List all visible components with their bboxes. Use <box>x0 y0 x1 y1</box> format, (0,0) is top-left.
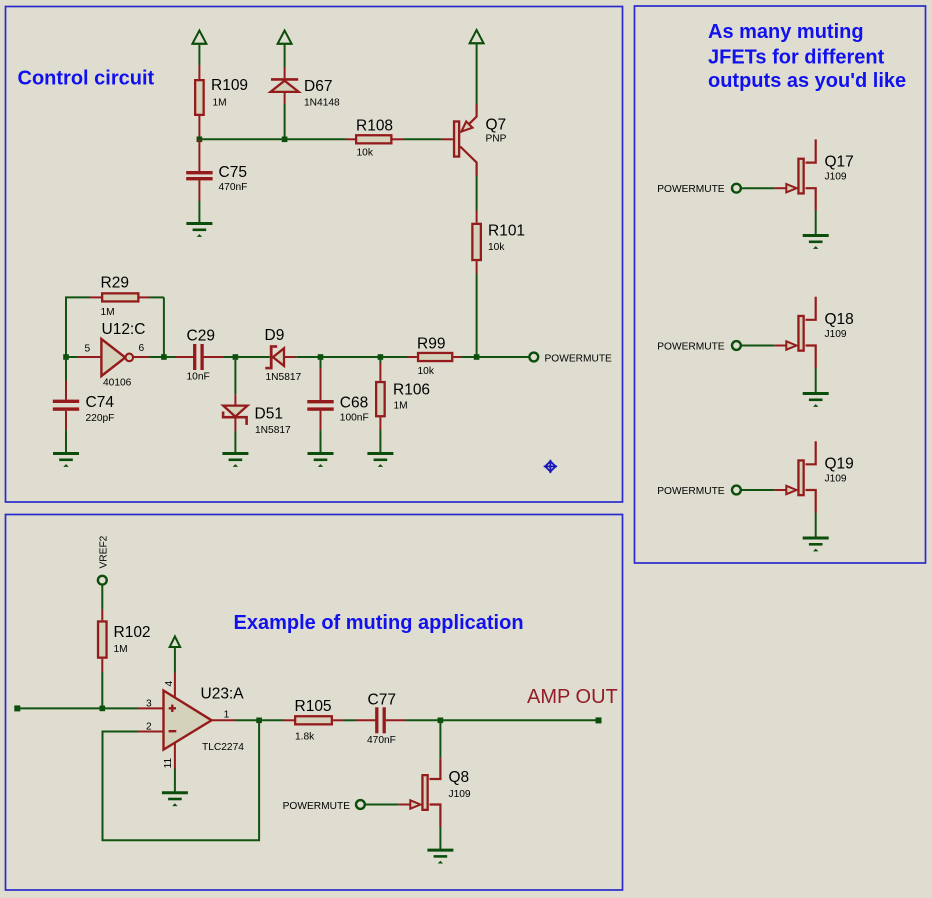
resistor R108 <box>356 135 391 143</box>
ground below Q19 <box>803 537 829 540</box>
power symbol above op-amp pin4 <box>170 636 181 647</box>
resistor R102 <box>98 621 107 657</box>
svg-text:1M: 1M <box>394 400 408 411</box>
wire node to D9 <box>235 356 269 358</box>
ground below D51 <box>222 452 248 455</box>
svg-text:5: 5 <box>85 344 91 355</box>
wire R29 right lead <box>140 296 150 298</box>
transistor Q17 drain wire <box>806 139 816 162</box>
resistor R99 <box>418 353 452 361</box>
svg-text:VREF2: VREF2 <box>98 535 109 568</box>
diode D9 1N5817 <box>270 345 273 369</box>
svg-text:C29: C29 <box>187 328 215 345</box>
capacitor C77 <box>375 707 378 733</box>
svg-text:J109: J109 <box>825 329 847 340</box>
svg-text:10k: 10k <box>357 147 374 158</box>
wire C29 left lead <box>175 356 194 358</box>
wire C75 to ground <box>198 201 200 223</box>
svg-text:outputs as you'd like: outputs as you'd like <box>708 70 906 92</box>
svg-text:TLC2274: TLC2274 <box>202 742 244 753</box>
wire node to U12 input <box>66 356 78 358</box>
wire C68 bottom lead <box>320 411 322 430</box>
wire Q18 gate lead <box>774 345 786 347</box>
wire Q17 gate lead <box>774 187 786 189</box>
svg-text:R108: R108 <box>356 118 393 135</box>
transistor Q18 drain wire <box>806 297 816 320</box>
wire input to node <box>17 707 102 709</box>
wire node to C29 <box>164 356 175 358</box>
wire R109 top lead <box>198 65 200 79</box>
wire node to D51 <box>234 357 236 394</box>
wire op-amp pin11 lead <box>174 743 176 769</box>
wire C29 right lead <box>204 356 224 358</box>
transistor Q17 body bar <box>798 159 803 194</box>
wire R101 to POWERMUTE node <box>476 274 478 358</box>
wire D9 anode lead <box>284 356 296 358</box>
wire R106 bottom lead <box>379 417 381 430</box>
wire R102 to input node <box>101 672 103 708</box>
terminal POWERMUTE for Q18 <box>732 341 741 350</box>
svg-text:1M: 1M <box>101 307 115 318</box>
svg-text:Control circuit: Control circuit <box>18 68 155 90</box>
wire node D67 to R108 <box>285 138 346 140</box>
wire power to pin4 <box>174 647 176 673</box>
svg-text:AMP OUT: AMP OUT <box>527 686 618 708</box>
wire R99 to node R101 <box>462 356 477 358</box>
wire U12 pin6 lead <box>133 356 150 358</box>
terminal POWERMUTE for Q8 <box>356 800 365 809</box>
wire R99 right lead <box>453 356 462 358</box>
transistor Q8 body bar <box>422 775 427 810</box>
svg-text:J109: J109 <box>449 789 471 800</box>
wire C77 to node Q8 <box>406 719 440 721</box>
transistor Q19 source wire <box>806 490 816 513</box>
wire D9 to node C68 <box>296 356 320 358</box>
wire node to POWERMUTE terminal <box>477 356 530 358</box>
transistor Q8 source wire <box>430 805 441 828</box>
wire Q7 base lead <box>441 138 453 140</box>
panel border: Control circuit box <box>6 7 623 503</box>
wire node to R105 <box>259 719 284 721</box>
wire node to op-amp pin3 <box>102 707 138 709</box>
transistor Q18 gate arrow <box>786 341 796 349</box>
wire op-amp pin3 lead <box>138 707 164 709</box>
svg-text:R101: R101 <box>488 223 525 240</box>
wire D51 anode lead <box>234 394 236 406</box>
wire R105 to C77 <box>344 719 356 721</box>
wire R106 top lead <box>379 363 381 381</box>
resistor R106 <box>376 382 385 416</box>
wire Q18 source to ground <box>815 368 817 393</box>
ground below C68 <box>308 452 334 455</box>
node junction D67/wire <box>282 137 288 143</box>
terminal VREF2 <box>98 576 107 585</box>
wire R101 top lead <box>476 211 478 223</box>
svg-text:R106: R106 <box>393 382 430 399</box>
svg-text:U12:C: U12:C <box>102 321 146 338</box>
svg-text:10k: 10k <box>488 242 505 253</box>
svg-text:40106: 40106 <box>103 378 132 389</box>
node junction D9/C68 <box>318 354 324 360</box>
svg-text:R102: R102 <box>114 624 151 641</box>
svg-text:470nF: 470nF <box>367 735 396 746</box>
node junction C77/Q8 <box>438 718 444 724</box>
op-amp U23:A plus sign <box>169 707 176 709</box>
svg-text:4: 4 <box>164 681 175 687</box>
svg-text:100nF: 100nF <box>340 412 369 423</box>
capacitor C74 <box>53 400 79 403</box>
wire pin11 to ground <box>174 769 176 793</box>
wire D67 cathode lead <box>284 67 286 78</box>
wire U12 pin5 lead <box>78 356 102 358</box>
svg-text:Q8: Q8 <box>449 769 470 786</box>
terminal POWERMUTE for Q17 <box>732 184 741 193</box>
op-amp U23:A minus sign <box>169 730 177 732</box>
wire op-amp pin4 lead <box>174 673 176 699</box>
wire node to AMP OUT end <box>440 719 596 721</box>
wire power to Q7 emitter <box>476 43 478 104</box>
wire C77 left lead <box>355 719 375 721</box>
wire D67 anode lead <box>284 92 286 104</box>
node junction R109/C75 <box>197 137 203 143</box>
terminal POWERMUTE for Q19 <box>732 486 741 495</box>
wire node to R106 <box>379 357 381 363</box>
svg-text:R105: R105 <box>295 698 332 715</box>
wire R105 right lead <box>333 719 344 721</box>
wire C68 top lead <box>320 368 322 400</box>
node junction R99/R106 <box>378 354 384 360</box>
resistor R101 <box>472 224 481 260</box>
node junction input U12:C <box>63 354 69 360</box>
wire C75 bottom lead <box>198 180 200 201</box>
wire node to C68 <box>320 357 322 368</box>
wire POWERMUTE to Q17 gate <box>741 187 774 189</box>
ground below R106 <box>367 452 393 455</box>
svg-text:1M: 1M <box>114 644 128 655</box>
diode D51 1N5817 <box>223 406 247 417</box>
svg-text:C68: C68 <box>340 395 368 412</box>
transistor Q19 drain wire <box>806 441 816 464</box>
svg-text:PNP: PNP <box>486 134 507 145</box>
svg-text:11: 11 <box>163 757 174 768</box>
wire feedback loop <box>103 720 260 840</box>
svg-text:U23:A: U23:A <box>201 686 245 703</box>
wire R102 top lead <box>101 610 103 621</box>
diode D67 1N4148 <box>271 78 298 81</box>
svg-text:C77: C77 <box>368 691 396 708</box>
wire POWERMUTE to Q8 gate <box>365 804 398 806</box>
wire R99 left lead <box>407 356 417 358</box>
wire R102 bottom lead <box>101 659 103 672</box>
origin marker <box>545 461 555 471</box>
wire op-amp output lead <box>212 719 235 721</box>
svg-text:10nF: 10nF <box>187 371 210 382</box>
ground below op-amp <box>162 791 188 794</box>
transistor Q8 gate arrow <box>410 800 420 808</box>
wire VREF2 to R102 <box>101 585 103 610</box>
ground below Q18 <box>803 392 829 395</box>
wire R29 right horizontal <box>150 296 164 298</box>
capacitor C75 <box>186 171 212 174</box>
wire C74 top lead <box>65 381 67 400</box>
svg-text:JFETs for different: JFETs for different <box>708 46 885 68</box>
wire C77 right lead <box>386 719 406 721</box>
panel border: muting JFETs box <box>635 6 926 563</box>
svg-text:R99: R99 <box>417 336 445 353</box>
power symbol above Q7 <box>470 30 484 43</box>
inverter U12:C (40106 Schmitt) <box>101 339 125 376</box>
transistor Q8 drain wire <box>430 758 441 779</box>
ground below Q17 <box>803 234 829 237</box>
wire node to C74 <box>65 357 67 381</box>
wire R109 bottom lead <box>198 116 200 139</box>
wire C74 bottom lead <box>65 411 67 430</box>
transistor Q18 body bar <box>798 316 803 351</box>
svg-text:D9: D9 <box>265 327 285 344</box>
svg-text:Q17: Q17 <box>825 154 854 171</box>
wire C29 to node <box>224 356 236 358</box>
node junction C29/D9/D51 <box>233 354 239 360</box>
svg-text:C75: C75 <box>219 164 247 181</box>
transistor Q7 collector lead <box>460 147 476 177</box>
wire C74 to ground <box>65 430 67 452</box>
op-amp U23:A (TLC2274) <box>164 691 212 750</box>
wire Q7 collector to R101 <box>476 176 478 211</box>
wire R108 right lead <box>393 138 404 140</box>
svg-text:2: 2 <box>146 722 152 733</box>
wire R29 left lead <box>90 296 102 298</box>
svg-text:POWERMUTE: POWERMUTE <box>657 184 725 195</box>
svg-text:D67: D67 <box>304 78 332 95</box>
svg-text:As many muting: As many muting <box>708 21 864 43</box>
svg-text:R29: R29 <box>101 274 129 291</box>
node junction R101/POWERMUTE <box>474 354 480 360</box>
wire R29 right vertical <box>163 297 165 357</box>
wire node R109 to node D67 <box>199 138 284 140</box>
svg-text:1M: 1M <box>213 98 227 109</box>
svg-text:1N5817: 1N5817 <box>255 425 291 436</box>
resistor R109 <box>195 80 204 115</box>
wire C68 to ground <box>320 430 322 452</box>
wire R105 left lead <box>284 719 294 721</box>
transistor Q17 source wire <box>806 188 816 211</box>
transistor Q7 emitter arrow (PNP, into base) <box>461 121 472 131</box>
wire output to node <box>235 719 259 721</box>
wire power to D67 <box>284 44 286 67</box>
wire R108 left lead <box>346 138 356 140</box>
terminal POWERMUTE (control) <box>529 353 538 362</box>
wire C68 node to R106 node <box>321 356 381 358</box>
svg-text:220pF: 220pF <box>86 413 115 424</box>
wire R106 to ground <box>379 430 381 453</box>
node junction input/R102 <box>100 706 106 712</box>
transistor Q17 gate arrow <box>786 184 796 192</box>
wire U12 output to node <box>150 356 164 358</box>
svg-text:Q18: Q18 <box>825 311 854 328</box>
power symbol above D67 <box>278 31 292 44</box>
wire Q8 source to ground <box>439 827 441 850</box>
transistor Q7 emitter lead <box>463 104 477 131</box>
wire POWERMUTE to Q18 gate <box>741 345 774 347</box>
svg-text:POWERMUTE: POWERMUTE <box>657 342 725 353</box>
svg-text:J109: J109 <box>825 172 847 183</box>
wire Q17 source to ground <box>815 211 817 235</box>
wire D67 to node <box>284 104 286 139</box>
wire Q19 gate lead <box>774 489 786 491</box>
transistor Q19 gate arrow <box>786 486 796 494</box>
node junction U12 output/R29 <box>161 354 167 360</box>
wire R29 left vertical <box>65 297 67 357</box>
wire POWERMUTE to Q19 gate <box>741 489 774 491</box>
svg-text:R109: R109 <box>211 77 248 94</box>
wire power to R109 <box>198 44 200 65</box>
svg-text:Q19: Q19 <box>825 455 854 472</box>
svg-text:1N4148: 1N4148 <box>304 98 340 109</box>
wire D51 to ground <box>234 431 236 453</box>
svg-text:J109: J109 <box>825 473 847 484</box>
svg-text:1: 1 <box>224 710 230 721</box>
wire D51 cathode lead <box>234 419 236 432</box>
resistor R29 <box>102 293 138 301</box>
svg-text:Q7: Q7 <box>486 117 507 134</box>
wire R29 left horizontal <box>65 296 90 298</box>
svg-text:POWERMUTE: POWERMUTE <box>657 486 725 497</box>
resistor R105 <box>295 716 332 724</box>
ground below Q8 <box>427 849 453 852</box>
panel border: example application box <box>6 515 623 891</box>
svg-text:1N5817: 1N5817 <box>266 372 302 383</box>
capacitor C29 <box>193 344 196 370</box>
transistor Q19 body bar <box>798 460 803 495</box>
transistor Q18 source wire <box>806 346 816 369</box>
svg-text:POWERMUTE: POWERMUTE <box>283 801 351 812</box>
svg-text:Example of muting application: Example of muting application <box>234 612 524 634</box>
wire Q8 gate lead <box>398 804 410 806</box>
wire node to C75 <box>198 139 200 171</box>
wire R108 to Q7 base <box>403 138 441 140</box>
svg-text:1.8k: 1.8k <box>295 732 315 743</box>
ground below C74 <box>53 452 79 455</box>
wire AMP OUT end marker <box>596 717 602 723</box>
svg-text:6: 6 <box>139 343 145 354</box>
svg-text:470nF: 470nF <box>219 182 248 193</box>
wire node to Q8 drain <box>439 720 441 758</box>
node junction output/feedback <box>256 718 262 724</box>
wire op-amp pin2 lead <box>138 731 164 733</box>
ground below C75 <box>186 222 212 225</box>
wire node to R99 <box>380 356 407 358</box>
svg-text:D51: D51 <box>255 405 283 422</box>
transistor Q7 body bar <box>454 121 459 156</box>
svg-text:C74: C74 <box>86 394 115 411</box>
svg-text:3: 3 <box>146 698 152 709</box>
wire R101 bottom lead <box>476 261 478 273</box>
wire Q19 source to ground <box>815 513 817 538</box>
wire input left end marker <box>14 705 20 711</box>
svg-text:10k: 10k <box>418 366 435 377</box>
svg-text:POWERMUTE: POWERMUTE <box>545 353 613 364</box>
power symbol above R109 <box>192 31 206 44</box>
capacitor C68 <box>307 400 333 403</box>
